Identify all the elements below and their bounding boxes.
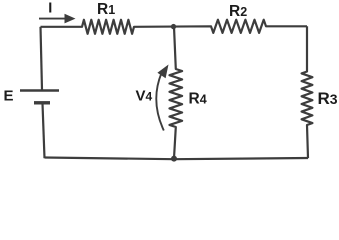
svg-text:I: I [48, 1, 52, 17]
svg-text:E: E [4, 87, 14, 104]
svg-text:R1: R1 [97, 1, 115, 18]
svg-text:R2: R2 [229, 3, 247, 20]
svg-text:V4: V4 [136, 87, 153, 104]
svg-text:R4: R4 [189, 90, 207, 107]
svg-text:R3: R3 [318, 89, 338, 108]
